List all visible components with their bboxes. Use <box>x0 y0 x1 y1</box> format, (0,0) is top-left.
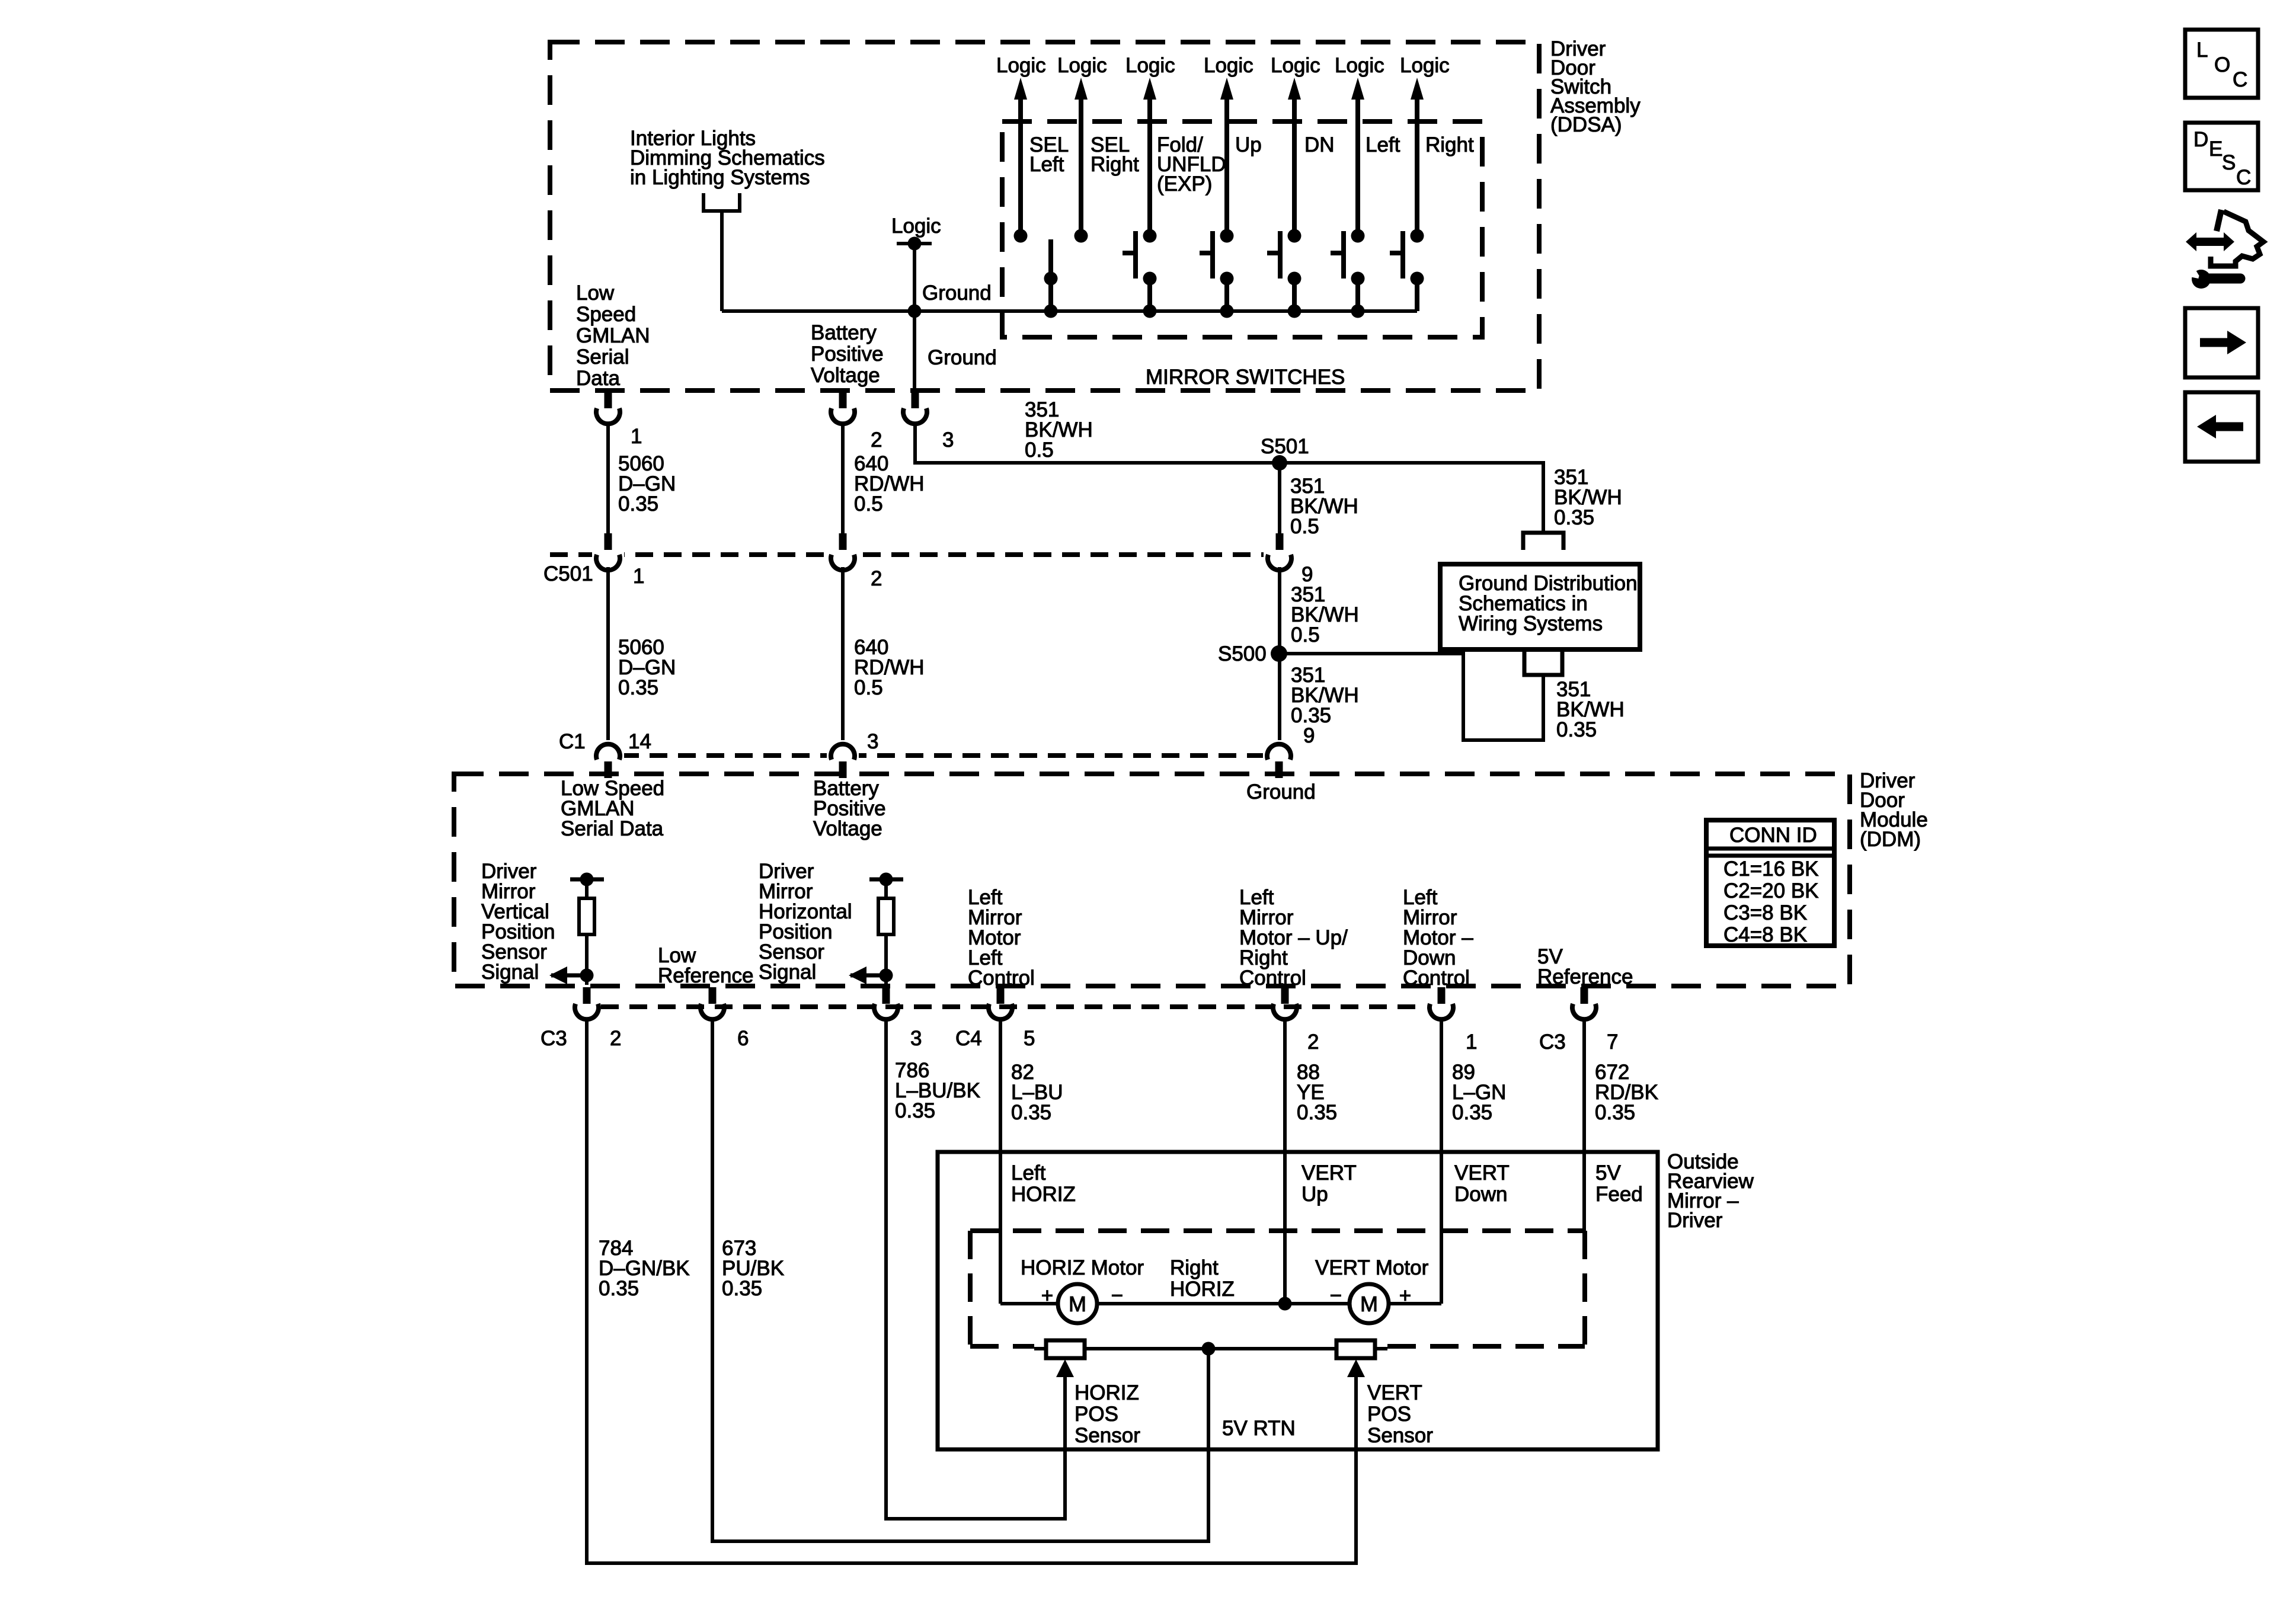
svg-text:Logic: Logic <box>1057 54 1107 77</box>
svg-text:Sensor: Sensor <box>1075 1424 1140 1447</box>
svg-text:O: O <box>2214 53 2230 76</box>
svg-text:0.35: 0.35 <box>1554 506 1594 529</box>
svg-text:VERT: VERT <box>1454 1161 1510 1185</box>
svg-text:3: 3 <box>910 1027 922 1050</box>
svg-text:2: 2 <box>1307 1030 1319 1054</box>
svg-text:Right: Right <box>1425 133 1474 156</box>
svg-text:Ground: Ground <box>922 281 992 305</box>
svg-text:3: 3 <box>942 428 954 452</box>
svg-text:Control: Control <box>968 966 1035 990</box>
svg-text:5: 5 <box>1024 1027 1035 1050</box>
svg-text:9: 9 <box>1303 724 1315 747</box>
svg-text:2: 2 <box>871 567 882 590</box>
svg-text:Logic: Logic <box>1335 54 1384 77</box>
svg-text:Logic: Logic <box>1204 54 1253 77</box>
svg-text:Serial Data: Serial Data <box>561 817 664 840</box>
svg-text:Left: Left <box>1366 133 1400 156</box>
svg-text:0.5: 0.5 <box>854 492 883 516</box>
svg-text:Low: Low <box>576 281 615 305</box>
svg-text:Logic: Logic <box>891 215 941 238</box>
svg-text:Serial: Serial <box>576 345 629 369</box>
svg-text:C2=20 BK: C2=20 BK <box>1723 879 1819 902</box>
svg-text:Feed: Feed <box>1595 1183 1643 1206</box>
svg-text:0.5: 0.5 <box>1290 515 1319 538</box>
svg-text:Data: Data <box>576 367 620 390</box>
svg-text:Logic: Logic <box>1400 54 1450 77</box>
svg-text:0.35: 0.35 <box>1595 1101 1635 1124</box>
svg-text:−: − <box>1111 1284 1123 1307</box>
svg-text:S501: S501 <box>1261 435 1309 458</box>
svg-text:Wiring Systems: Wiring Systems <box>1459 612 1603 635</box>
svg-text:0.5: 0.5 <box>1025 438 1054 462</box>
svg-text:VERT Motor: VERT Motor <box>1315 1256 1429 1279</box>
svg-text:0.35: 0.35 <box>1011 1101 1051 1124</box>
svg-text:POS: POS <box>1075 1403 1118 1426</box>
svg-text:0.35: 0.35 <box>722 1277 762 1300</box>
svg-text:GMLAN: GMLAN <box>576 324 650 347</box>
svg-text:(DDM): (DDM) <box>1860 828 1921 851</box>
svg-text:Signal: Signal <box>481 961 539 984</box>
svg-text:Speed: Speed <box>576 303 636 326</box>
svg-text:Control: Control <box>1403 966 1470 990</box>
svg-text:0.35: 0.35 <box>1297 1101 1337 1124</box>
svg-text:M: M <box>1360 1292 1378 1316</box>
svg-text:M: M <box>1069 1292 1086 1316</box>
svg-text:0.35: 0.35 <box>1556 718 1597 741</box>
svg-text:Signal: Signal <box>759 961 816 984</box>
svg-text:C3: C3 <box>541 1027 567 1050</box>
svg-text:Battery: Battery <box>811 321 877 344</box>
svg-text:C4=8 BK: C4=8 BK <box>1723 923 1807 946</box>
svg-text:HORIZ: HORIZ <box>1075 1381 1139 1404</box>
svg-text:7: 7 <box>1607 1030 1618 1054</box>
svg-text:+: + <box>1041 1284 1053 1307</box>
svg-text:Reference: Reference <box>658 964 753 987</box>
svg-text:L: L <box>2196 39 2208 62</box>
svg-text:5V RTN: 5V RTN <box>1222 1417 1296 1440</box>
svg-text:0.5: 0.5 <box>854 676 883 699</box>
svg-text:Reference: Reference <box>1537 965 1633 988</box>
svg-text:HORIZ: HORIZ <box>1011 1183 1076 1206</box>
svg-text:Right: Right <box>1091 153 1139 176</box>
svg-text:0.35: 0.35 <box>1452 1101 1492 1124</box>
svg-text:C4: C4 <box>955 1027 982 1050</box>
svg-text:Left: Left <box>1011 1161 1046 1185</box>
svg-text:Logic: Logic <box>996 54 1046 77</box>
svg-text:Left: Left <box>1029 153 1064 176</box>
svg-text:2: 2 <box>610 1027 621 1050</box>
svg-text:1: 1 <box>633 565 644 588</box>
svg-text:Voltage: Voltage <box>811 364 880 387</box>
svg-text:D: D <box>2193 128 2208 151</box>
svg-text:C1=16 BK: C1=16 BK <box>1723 857 1819 881</box>
svg-text:Logic: Logic <box>1271 54 1320 77</box>
svg-text:0.35: 0.35 <box>618 492 658 516</box>
svg-text:6: 6 <box>737 1027 749 1050</box>
svg-text:Down: Down <box>1454 1183 1507 1206</box>
svg-text:C3: C3 <box>1539 1030 1566 1054</box>
svg-text:Logic: Logic <box>1125 54 1175 77</box>
svg-text:Driver: Driver <box>1667 1209 1723 1232</box>
svg-text:CONN ID: CONN ID <box>1729 824 1817 847</box>
svg-text:E: E <box>2209 137 2223 161</box>
svg-text:0.35: 0.35 <box>618 676 658 699</box>
svg-text:Sensor: Sensor <box>1367 1424 1433 1447</box>
svg-text:Control: Control <box>1239 966 1306 990</box>
svg-text:in Lighting Systems: in Lighting Systems <box>630 166 810 189</box>
svg-text:0.35: 0.35 <box>599 1277 639 1300</box>
svg-text:3: 3 <box>867 730 878 753</box>
svg-text:0.35: 0.35 <box>895 1099 935 1122</box>
svg-text:C501: C501 <box>543 562 593 585</box>
svg-text:Ground: Ground <box>1246 780 1316 804</box>
svg-text:S: S <box>2222 151 2236 174</box>
svg-text:C: C <box>2236 166 2251 189</box>
svg-text:VERT: VERT <box>1367 1381 1422 1404</box>
svg-text:(EXP): (EXP) <box>1157 172 1212 196</box>
svg-text:C3=8 BK: C3=8 BK <box>1723 901 1807 924</box>
svg-text:1: 1 <box>631 425 642 448</box>
svg-text:HORIZ: HORIZ <box>1170 1278 1235 1301</box>
svg-text:(DDSA): (DDSA) <box>1550 113 1622 136</box>
svg-text:−: − <box>1330 1284 1342 1307</box>
svg-text:Ground: Ground <box>928 346 997 369</box>
svg-text:1: 1 <box>1466 1030 1477 1054</box>
svg-text:C: C <box>2233 68 2247 91</box>
svg-text:VERT: VERT <box>1302 1161 1357 1185</box>
svg-text:2: 2 <box>871 428 882 452</box>
svg-text:Voltage: Voltage <box>813 817 882 840</box>
svg-text:Positive: Positive <box>811 343 884 366</box>
svg-text:5V: 5V <box>1595 1161 1621 1185</box>
svg-text:Up: Up <box>1302 1183 1328 1206</box>
svg-text:Right: Right <box>1170 1256 1219 1279</box>
svg-text:S500: S500 <box>1218 642 1267 665</box>
svg-text:POS: POS <box>1367 1403 1411 1426</box>
svg-text:Up: Up <box>1235 133 1262 156</box>
svg-text:+: + <box>1399 1284 1411 1307</box>
svg-text:HORIZ Motor: HORIZ Motor <box>1021 1256 1144 1279</box>
svg-text:C1: C1 <box>559 730 586 753</box>
svg-text:14: 14 <box>628 730 651 753</box>
svg-text:0.5: 0.5 <box>1291 623 1320 646</box>
svg-text:DN: DN <box>1304 133 1335 156</box>
svg-text:MIRROR SWITCHES: MIRROR SWITCHES <box>1146 366 1345 389</box>
